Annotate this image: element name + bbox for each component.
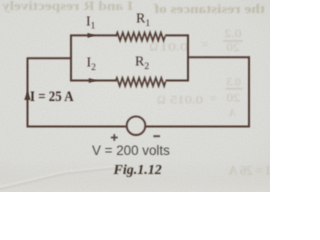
wire: right junction bar — [187, 35, 189, 82]
wire: left vertical — [27, 58, 29, 127]
ghost bleed-through text: "I and R respectively" (mirrored) — [1, 0, 133, 13]
ghost equation 2: 0.3/20 = 0.015 ohm (mirrored) — [157, 76, 242, 106]
arrow I up on left wire — [24, 91, 31, 100]
current arrows — [24, 33, 96, 100]
wire: bottom left of source — [27, 126, 127, 128]
ghost mark A (mirrored) — [228, 108, 236, 119]
wire: middle output to right — [188, 56, 250, 58]
arrow I2 on bottom branch — [89, 78, 97, 83]
ghost equation 1: 0.2/20 = 0.01 ohm (mirrored) — [149, 28, 242, 54]
wire: bottom branch left segment — [70, 80, 116, 82]
wire: right vertical — [248, 56, 250, 127]
ghost text: I = 26 A (mirrored, bottom right) — [229, 164, 270, 178]
wire: left horizontal to junction bar — [27, 57, 71, 59]
page crease highlight — [0, 166, 132, 189]
minus sign of source — [153, 135, 160, 137]
wire: left junction bar — [70, 35, 72, 82]
circuit labels — [30, 11, 150, 105]
resistor R1 — [116, 33, 165, 41]
ghost bleed-through text: "the resistances of" (mirrored) — [153, 1, 265, 16]
wire: top branch right segment — [165, 34, 189, 36]
paper grain — [0, 0, 270, 192]
resistor R2 — [116, 78, 166, 86]
voltage source V circle — [127, 116, 146, 135]
wire: bottom right of source — [145, 126, 250, 128]
wire: bottom branch right segment — [166, 80, 189, 82]
circuit wires — [27, 33, 250, 135]
plus sign of source — [111, 134, 160, 141]
wire: top branch left segment — [70, 34, 116, 36]
paper background — [0, 0, 270, 192]
arrow I1 on top branch — [88, 33, 95, 38]
